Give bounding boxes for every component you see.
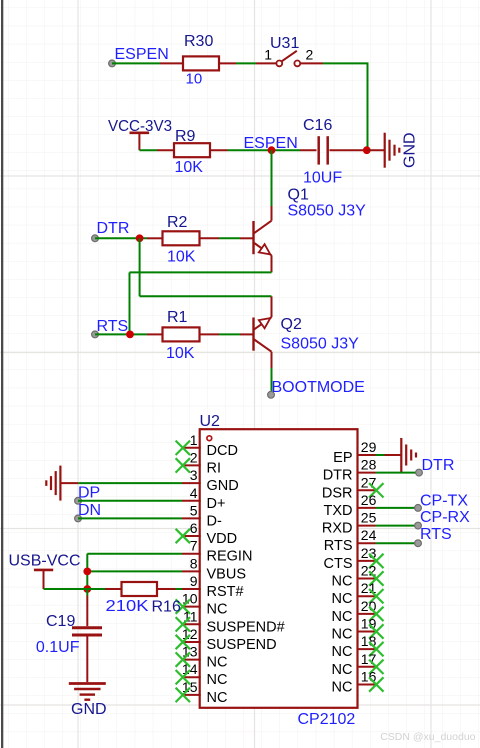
svg-text:7: 7 (190, 538, 198, 554)
svg-text:REGIN: REGIN (207, 549, 253, 565)
svg-text:28: 28 (361, 457, 377, 473)
svg-text:NC: NC (332, 574, 353, 590)
svg-text:DN: DN (78, 502, 101, 519)
svg-text:NC: NC (207, 655, 228, 671)
svg-text:5: 5 (190, 502, 198, 518)
svg-text:DTR: DTR (97, 220, 130, 237)
svg-text:CP2102: CP2102 (298, 711, 356, 728)
svg-text:26: 26 (361, 492, 377, 508)
svg-text:2: 2 (190, 449, 198, 465)
svg-text:S8050 J3Y: S8050 J3Y (288, 203, 367, 220)
svg-text:GND: GND (71, 701, 107, 718)
svg-text:DSR: DSR (322, 485, 353, 501)
svg-text:VBUS: VBUS (207, 566, 247, 582)
svg-text:DP: DP (78, 485, 100, 502)
svg-text:R30: R30 (184, 33, 213, 50)
svg-text:D-: D- (207, 513, 222, 529)
svg-text:10K: 10K (175, 159, 204, 176)
svg-text:NC: NC (332, 627, 353, 643)
svg-text:RTS: RTS (420, 526, 452, 543)
svg-text:Q2: Q2 (281, 316, 302, 333)
svg-text:U31: U31 (270, 35, 299, 52)
svg-text:NC: NC (207, 672, 228, 688)
svg-text:RST#: RST# (207, 584, 244, 600)
svg-text:U2: U2 (200, 413, 221, 430)
svg-text:CSDN @xu_duoduo: CSDN @xu_duoduo (380, 731, 475, 743)
svg-text:4: 4 (190, 485, 198, 501)
svg-text:CP-TX: CP-TX (420, 493, 468, 510)
svg-text:BOOTMODE: BOOTMODE (272, 379, 365, 396)
svg-text:R16: R16 (152, 599, 181, 616)
svg-text:6: 6 (190, 520, 198, 536)
svg-text:DTR: DTR (422, 457, 455, 474)
svg-text:NC: NC (332, 680, 353, 696)
svg-text:NC: NC (332, 644, 353, 660)
svg-text:CP-RX: CP-RX (420, 509, 470, 526)
svg-text:24: 24 (361, 527, 377, 543)
svg-text:R1: R1 (167, 309, 188, 326)
svg-text:GND: GND (402, 132, 419, 168)
svg-text:NC: NC (332, 591, 353, 607)
svg-text:RTS: RTS (324, 538, 353, 554)
svg-text:NC: NC (332, 662, 353, 678)
svg-text:25: 25 (361, 510, 377, 526)
svg-text:SUSPEND: SUSPEND (207, 637, 277, 653)
svg-text:10K: 10K (166, 345, 195, 362)
svg-text:VDD: VDD (207, 531, 238, 547)
svg-text:1: 1 (190, 432, 198, 448)
svg-text:9: 9 (190, 573, 198, 589)
svg-text:S8050 J3Y: S8050 J3Y (281, 336, 360, 353)
svg-text:EP: EP (333, 450, 352, 466)
svg-text:3: 3 (190, 467, 198, 483)
svg-text:NC: NC (207, 690, 228, 706)
svg-text:DTR: DTR (323, 468, 353, 484)
svg-text:R9: R9 (175, 128, 196, 145)
svg-text:0.1UF: 0.1UF (36, 639, 80, 656)
svg-text:RXD: RXD (322, 521, 353, 537)
svg-text:DCD: DCD (207, 443, 238, 459)
svg-text:RI: RI (207, 460, 222, 476)
svg-text:ESPEN: ESPEN (115, 46, 169, 63)
svg-text:210K: 210K (106, 598, 149, 615)
svg-text:GND: GND (207, 478, 239, 494)
svg-text:SUSPEND#: SUSPEND# (207, 619, 285, 635)
svg-text:C16: C16 (303, 117, 332, 134)
svg-text:R2: R2 (167, 214, 188, 231)
svg-text:Q1: Q1 (288, 187, 309, 204)
svg-text:D+: D+ (207, 496, 226, 512)
svg-text:USB-VCC: USB-VCC (9, 553, 81, 570)
svg-text:10UF: 10UF (303, 170, 342, 187)
svg-text:NC: NC (207, 602, 228, 618)
svg-text:CTS: CTS (324, 556, 353, 572)
svg-text:2: 2 (306, 47, 314, 63)
svg-text:RTS: RTS (97, 318, 129, 335)
svg-text:10: 10 (186, 71, 203, 88)
svg-text:10K: 10K (167, 249, 196, 266)
svg-text:8: 8 (190, 555, 198, 571)
svg-text:TXD: TXD (324, 503, 353, 519)
svg-text:NC: NC (332, 609, 353, 625)
svg-text:C19: C19 (46, 613, 75, 630)
svg-text:29: 29 (361, 439, 377, 455)
